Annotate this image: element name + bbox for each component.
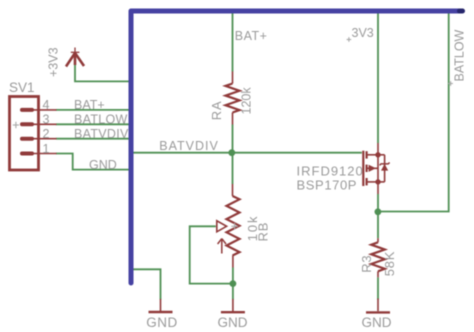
svg-text:SV1: SV1 <box>9 80 35 95</box>
svg-text:BSP170P: BSP170P <box>297 177 358 192</box>
svg-text:BATVDIV: BATVDIV <box>74 127 129 141</box>
svg-text:120k: 120k <box>239 87 253 115</box>
svg-text:58K: 58K <box>382 251 397 277</box>
svg-text:BATVDIV: BATVDIV <box>159 139 219 153</box>
svg-text:R3: R3 <box>359 255 374 273</box>
svg-text:GND: GND <box>146 315 178 330</box>
svg-text:BAT+: BAT+ <box>74 98 105 112</box>
svg-text:+3V3: +3V3 <box>47 47 61 77</box>
svg-text:2: 2 <box>43 127 50 141</box>
svg-text:RA: RA <box>209 101 224 121</box>
svg-text:BATLOW: BATLOW <box>453 29 467 81</box>
svg-text:IRFD9120: IRFD9120 <box>297 163 364 178</box>
svg-text:GND: GND <box>218 315 248 330</box>
svg-text:4: 4 <box>43 98 50 112</box>
svg-text:1: 1 <box>43 142 50 156</box>
svg-text:3V3: 3V3 <box>352 26 374 40</box>
svg-text:GND: GND <box>89 158 117 172</box>
svg-text:3: 3 <box>43 113 50 127</box>
svg-text:BATLOW: BATLOW <box>74 113 128 127</box>
svg-text:GND: GND <box>362 315 392 330</box>
svg-text:BAT+: BAT+ <box>235 29 268 43</box>
svg-text:RB: RB <box>255 222 270 242</box>
